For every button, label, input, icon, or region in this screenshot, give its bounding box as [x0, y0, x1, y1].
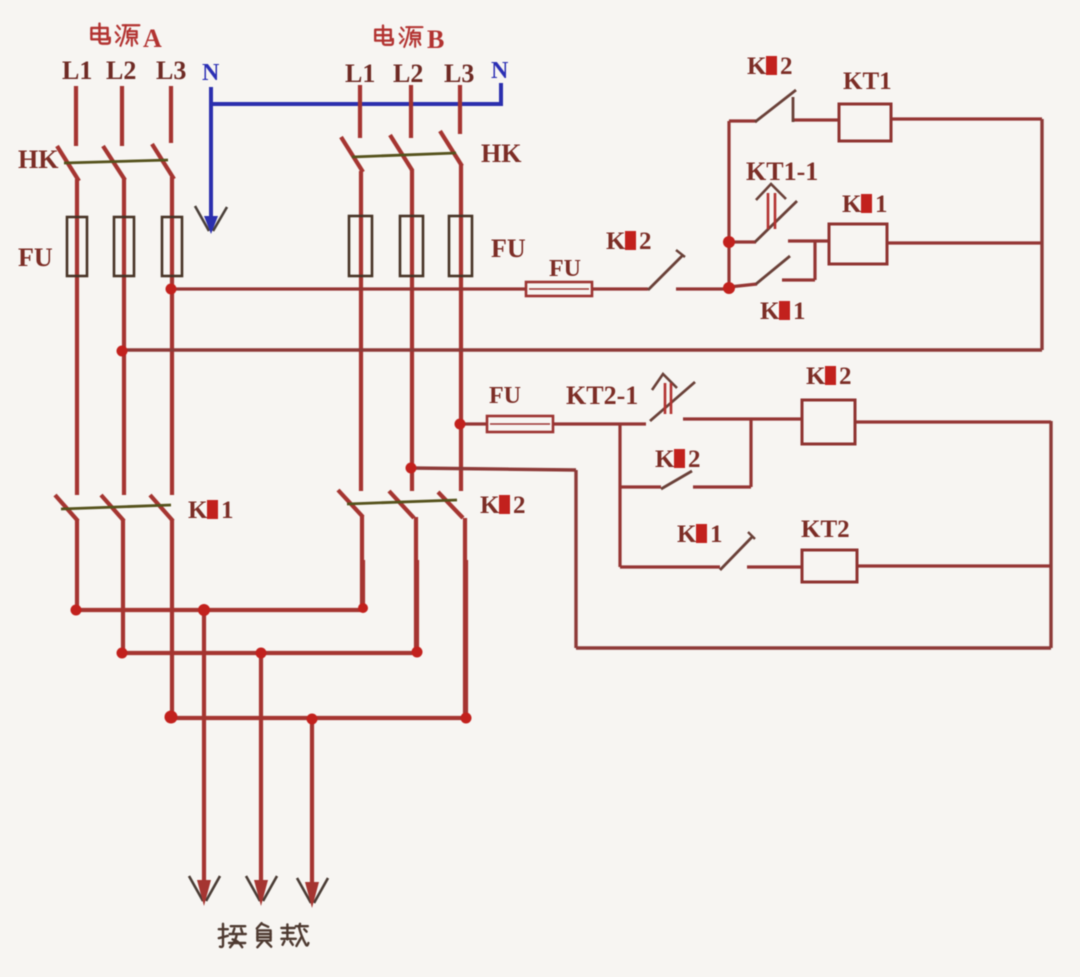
- svg-text:K: K: [655, 446, 675, 473]
- svg-text:L2: L2: [393, 59, 423, 88]
- svg-text:2: 2: [839, 363, 852, 390]
- svg-text:L3: L3: [156, 56, 186, 85]
- svg-text:K: K: [677, 521, 697, 548]
- svg-text:KT1-1: KT1-1: [746, 157, 818, 186]
- svg-text:2: 2: [513, 492, 526, 519]
- svg-text:FU: FU: [549, 256, 581, 282]
- svg-text:HK: HK: [481, 139, 522, 168]
- svg-text:FU: FU: [489, 383, 521, 409]
- svg-text:L1: L1: [345, 59, 375, 88]
- svg-text:K: K: [806, 363, 826, 390]
- svg-text:K: K: [760, 298, 780, 325]
- svg-text:2: 2: [688, 446, 701, 473]
- svg-text:N: N: [202, 60, 220, 86]
- svg-text:1: 1: [875, 191, 888, 218]
- svg-text:KT2: KT2: [801, 516, 850, 543]
- svg-text:KT1: KT1: [843, 68, 892, 95]
- svg-text:A: A: [143, 24, 162, 53]
- svg-text:2: 2: [780, 53, 793, 80]
- svg-text:1: 1: [710, 521, 723, 548]
- svg-text:L2: L2: [106, 56, 136, 85]
- svg-text:KT2-1: KT2-1: [566, 381, 638, 410]
- svg-text:1: 1: [793, 298, 806, 325]
- svg-text:B: B: [427, 25, 444, 54]
- svg-text:1: 1: [221, 497, 234, 524]
- svg-text:L3: L3: [444, 59, 474, 88]
- svg-text:N: N: [491, 58, 509, 84]
- svg-text:L1: L1: [62, 56, 92, 85]
- svg-text:HK: HK: [18, 145, 59, 174]
- svg-text:K: K: [480, 492, 500, 519]
- svg-text:K: K: [606, 228, 626, 255]
- svg-text:K: K: [188, 497, 208, 524]
- svg-text:K: K: [747, 53, 767, 80]
- svg-text:K: K: [842, 191, 862, 218]
- svg-text:FU: FU: [18, 243, 53, 272]
- svg-text:FU: FU: [491, 234, 526, 263]
- svg-text:2: 2: [639, 228, 652, 255]
